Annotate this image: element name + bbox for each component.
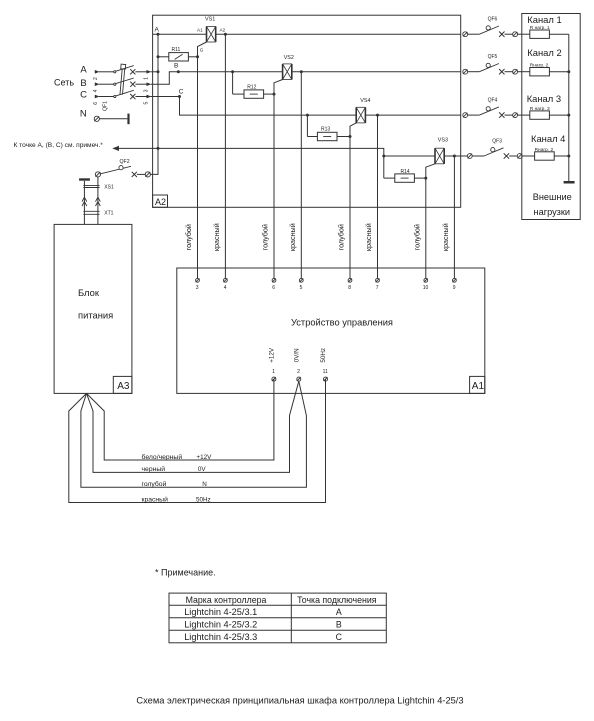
- svg-text:Канал 3: Канал 3: [527, 93, 561, 104]
- svg-text:QF3: QF3: [492, 139, 502, 145]
- svg-text:+12V: +12V: [268, 347, 275, 363]
- svg-text:бело/черный: бело/черный: [142, 453, 183, 461]
- svg-text:красный: красный: [142, 495, 169, 503]
- svg-text:красный: красный: [288, 223, 297, 251]
- svg-text:3: 3: [144, 89, 150, 92]
- svg-text:A1: A1: [197, 27, 203, 32]
- svg-text:4: 4: [93, 89, 99, 92]
- svg-text:голубой: голубой: [337, 224, 346, 250]
- svg-text:нагрузки: нагрузки: [534, 207, 571, 217]
- svg-text:VS4: VS4: [360, 98, 370, 104]
- svg-text:Устройство управления: Устройство управления: [291, 317, 393, 327]
- svg-text:11: 11: [323, 369, 328, 375]
- svg-text:QF4: QF4: [488, 98, 498, 104]
- svg-text:2: 2: [297, 369, 300, 375]
- svg-text:8: 8: [348, 285, 351, 291]
- svg-text:R14: R14: [401, 169, 410, 175]
- svg-text:голубой: голубой: [261, 224, 270, 250]
- svg-text:черный: черный: [142, 465, 166, 473]
- svg-text:QF1: QF1: [102, 101, 108, 111]
- svg-text:A2: A2: [220, 28, 226, 33]
- svg-text:Точка подключения: Точка подключения: [297, 595, 377, 605]
- svg-text:7: 7: [376, 285, 379, 291]
- svg-text:4: 4: [224, 285, 227, 291]
- svg-text:красный: красный: [441, 223, 450, 251]
- svg-text:10: 10: [423, 285, 429, 291]
- svg-text:красный: красный: [364, 223, 373, 251]
- svg-text:N: N: [202, 481, 207, 488]
- svg-text:2: 2: [93, 77, 99, 80]
- svg-text:B: B: [80, 78, 86, 89]
- svg-text:5: 5: [300, 285, 303, 291]
- svg-text:Блок: Блок: [78, 287, 100, 298]
- svg-text:XS1: XS1: [104, 184, 114, 190]
- svg-text:Канал 4: Канал 4: [531, 133, 565, 144]
- svg-text:Канал 2: Канал 2: [527, 47, 561, 58]
- svg-text:QF6: QF6: [488, 17, 498, 23]
- svg-text:C: C: [179, 88, 184, 95]
- svg-text:A: A: [336, 607, 342, 617]
- svg-text:6: 6: [93, 102, 99, 105]
- svg-text:9: 9: [453, 285, 456, 291]
- svg-text:C: C: [336, 632, 343, 642]
- svg-text:A2: A2: [155, 197, 166, 207]
- svg-text:N: N: [80, 108, 87, 119]
- svg-text:Марка контроллера: Марка контроллера: [186, 595, 267, 605]
- svg-text:C: C: [80, 90, 87, 101]
- svg-text:голубой: голубой: [184, 224, 193, 250]
- svg-text:Lightchin 4-25/3.2: Lightchin 4-25/3.2: [184, 620, 257, 630]
- svg-text:R12: R12: [247, 84, 256, 90]
- svg-text:красный: красный: [212, 223, 221, 251]
- svg-text:3: 3: [196, 285, 199, 291]
- svg-text:R11: R11: [172, 47, 181, 53]
- svg-text:6: 6: [272, 285, 275, 291]
- svg-text:VS1: VS1: [205, 17, 215, 23]
- svg-text:A: A: [155, 27, 160, 34]
- svg-text:A: A: [80, 65, 87, 76]
- svg-text:* Примечание.: * Примечание.: [155, 567, 216, 577]
- svg-text:1: 1: [272, 369, 275, 375]
- svg-text:0V/N: 0V/N: [293, 348, 300, 362]
- svg-text:Схема электрическая принципиал: Схема электрическая принципиальная шкафа…: [136, 696, 463, 706]
- svg-text:QF5: QF5: [488, 54, 498, 60]
- svg-text:Сеть: Сеть: [54, 78, 74, 88]
- svg-text:A1: A1: [472, 381, 485, 392]
- svg-text:VS3: VS3: [438, 138, 448, 144]
- svg-text:VS2: VS2: [284, 55, 294, 61]
- svg-text:К точке A, (B, C) см. примеч.*: К точке A, (B, C) см. примеч.*: [14, 142, 104, 149]
- svg-text:B: B: [174, 63, 178, 70]
- svg-text:1: 1: [144, 77, 150, 80]
- svg-text:Lightchin 4-25/3.3: Lightchin 4-25/3.3: [184, 632, 257, 642]
- svg-text:0V: 0V: [198, 466, 207, 473]
- svg-text:голубой: голубой: [413, 224, 422, 250]
- svg-text:Внешние: Внешние: [533, 192, 572, 202]
- svg-text:50Hz: 50Hz: [196, 496, 211, 503]
- svg-text:голубой: голубой: [142, 480, 167, 488]
- svg-text:+12V: +12V: [196, 454, 212, 461]
- svg-text:R13: R13: [321, 127, 330, 133]
- svg-text:A3: A3: [117, 381, 130, 392]
- svg-text:5: 5: [144, 101, 150, 104]
- svg-text:G: G: [200, 47, 204, 52]
- svg-text:QF2: QF2: [120, 159, 130, 165]
- svg-text:питания: питания: [78, 310, 113, 321]
- svg-text:50Hz: 50Hz: [320, 348, 327, 363]
- svg-text:Канал 1: Канал 1: [527, 14, 561, 25]
- svg-text:B: B: [336, 620, 342, 630]
- svg-text:XT1: XT1: [104, 211, 113, 217]
- svg-text:Lightchin 4-25/3.1: Lightchin 4-25/3.1: [184, 607, 257, 617]
